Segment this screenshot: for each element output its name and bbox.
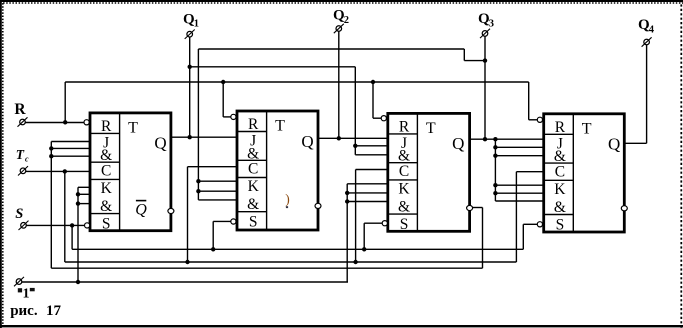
svg-text:S: S: [400, 216, 409, 233]
wire U4 J3 line: [495, 155, 543, 157]
wire U2 K3 line: [198, 199, 237, 201]
junction U2 K1: [196, 179, 200, 183]
wire rail-A drop x198: [197, 49, 199, 200]
svg-text:17: 17: [46, 303, 62, 319]
U4 inverted output bubble: [621, 206, 627, 211]
junction U4 JK riser top: [493, 137, 497, 141]
wire rail-R horizontal y82 (common R line): [65, 81, 529, 83]
junction U1 J3: [49, 154, 53, 158]
wire U2.Q to U3.J: [318, 137, 388, 139]
wire U4 R drop: [528, 82, 530, 120]
terminal R: [18, 117, 28, 126]
svg-text:S: S: [102, 215, 111, 232]
svg-text:Q: Q: [154, 134, 166, 153]
junction U1 K2: [76, 192, 80, 196]
svg-text:C: C: [399, 163, 409, 180]
wire U3 R drop: [372, 82, 374, 118]
junction Q3 rail-A: [483, 58, 487, 62]
wire U2 S riser: [212, 221, 214, 249]
flip-flop U3 (T-trigger box): [388, 113, 470, 232]
svg-text:): ): [285, 192, 290, 207]
svg-text:R: R: [101, 118, 112, 135]
svg-text:&: &: [398, 198, 410, 215]
wire U3 /Q to riser: [473, 207, 483, 209]
junction C-bus x187: [185, 260, 189, 264]
flip-flop U1 (T-trigger box): [90, 113, 171, 232]
junction S-bus x213: [211, 247, 215, 251]
svg-text:R: R: [14, 101, 26, 118]
wire U1 K2 line: [78, 193, 90, 195]
wire U1 J3 line: [51, 155, 90, 157]
wire U4 S riser: [522, 224, 524, 249]
wire U2 C riser: [187, 167, 189, 262]
wire S-bus y249: [72, 248, 523, 250]
junction U2 K2: [196, 189, 200, 193]
svg-text:K: K: [248, 178, 260, 195]
svg-text:R: R: [248, 116, 259, 133]
svg-text:1: 1: [194, 19, 199, 30]
wire U1 C drop to C-bus: [64, 171, 66, 262]
wire U3 C riser: [355, 170, 357, 263]
wire U3 /Q drop: [482, 208, 484, 269]
U4 S input bubble: [537, 222, 542, 227]
junction U4 K1: [493, 183, 497, 187]
wire U3 J3 line: [355, 154, 388, 156]
U1 inverted output bubble: [168, 208, 174, 213]
wire J-bus y268: [51, 267, 482, 269]
wire rail-R riser at x65: [64, 82, 66, 123]
junction Q3 on output: [483, 137, 487, 141]
flip-flop U2 (T-trigger box): [237, 111, 318, 231]
junction U4 J3: [493, 154, 497, 158]
junction Q1 on output: [188, 135, 192, 139]
U2 inverted output bubble: [315, 203, 321, 208]
flip-flop U4 (T-trigger box): [544, 114, 625, 234]
junction Q1 rail-B: [188, 65, 192, 69]
wire U3.Q to U4.J: [470, 138, 544, 140]
svg-text:Q: Q: [452, 134, 464, 153]
svg-text:&: &: [247, 196, 259, 213]
junction S wire x72: [70, 223, 74, 227]
wire U1 K3 line: [78, 203, 90, 205]
wire U3 K2 line: [347, 192, 388, 194]
svg-text:4: 4: [649, 24, 655, 35]
terminal Q2 drop wire: [338, 31, 340, 138]
svg-text:T: T: [128, 119, 138, 136]
svg-text:Q: Q: [608, 135, 620, 154]
wire U3 S riser: [363, 223, 365, 249]
terminal Q3: [480, 29, 490, 38]
junction U1 K3: [76, 201, 80, 205]
U2 R input bubble: [231, 114, 236, 119]
wire rail-A y49 (Q3 to U2.K): [198, 48, 464, 50]
junction U3 K3: [345, 199, 349, 203]
svg-text:C: C: [248, 161, 258, 178]
junction U1 J2: [49, 146, 53, 150]
svg-text:S: S: [15, 206, 23, 222]
svg-text:T: T: [275, 118, 285, 135]
svg-text:C: C: [101, 162, 111, 179]
wire U4 C riser: [515, 172, 517, 262]
wire U4 K1 line: [495, 184, 543, 186]
terminal Tc: [18, 166, 28, 175]
wire U4 JK vertical: [494, 139, 496, 201]
junction U4 K2: [493, 191, 497, 195]
terminal Q3 drop wire: [484, 36, 486, 139]
terminal Q1 drop wire: [189, 37, 191, 137]
svg-text:R: R: [399, 118, 410, 135]
junction Q2 on output: [337, 136, 341, 140]
wire U2 R drop: [222, 82, 224, 117]
svg-text:Q: Q: [301, 132, 313, 151]
svg-text:R: R: [555, 119, 566, 136]
wire U4 K2 line: [495, 192, 543, 194]
wire U1 K1 line: [78, 186, 90, 188]
input "1" label: [18, 288, 22, 292]
svg-text:c: c: [25, 154, 29, 163]
wire U1 J vertical: [50, 142, 52, 269]
wire R terminal to U1.R: [25, 122, 84, 124]
wire U4.Q to terminal Q4: [624, 142, 646, 144]
junction U4 J2: [493, 145, 497, 149]
junction C-bus x355: [353, 260, 357, 264]
svg-text:T: T: [582, 120, 592, 137]
svg-text:K: K: [554, 181, 566, 198]
U4 R input bubble: [537, 117, 542, 122]
wire U3 K1 line: [347, 183, 388, 185]
wire U1 S drop to S-bus: [71, 225, 73, 249]
wire "1" line y282: [22, 281, 348, 283]
junction "1" x78: [76, 280, 80, 284]
svg-text:K: K: [398, 180, 410, 197]
wire U1 J2 line: [51, 147, 90, 149]
svg-text:C: C: [555, 163, 565, 180]
svg-text:рис.: рис.: [10, 303, 38, 319]
U1 R input bubble: [84, 120, 89, 125]
junction C wire x65: [63, 169, 67, 173]
terminal "1": [14, 277, 24, 286]
wire U3 K vertical: [346, 184, 348, 282]
wire S terminal to U1.S: [26, 224, 84, 226]
svg-text:K: K: [101, 180, 113, 197]
U3 R input bubble: [381, 116, 386, 121]
wire C-bus y262: [65, 261, 517, 263]
U3 S input bubble: [382, 221, 387, 226]
wire rail-B drop x355: [354, 67, 356, 155]
wire U2 K2 line: [198, 190, 237, 192]
terminal S: [19, 221, 29, 230]
wire rail-B y66.8 (Q1 to U3.J): [190, 66, 356, 68]
wire U1 J1 line: [51, 141, 90, 143]
U3 inverted output bubble: [467, 205, 473, 210]
junction U3 J2: [353, 144, 357, 148]
svg-text:3: 3: [489, 19, 494, 30]
terminal Q2: [334, 24, 344, 33]
wire U4 K3 line: [495, 200, 543, 202]
wire U1.Q to U2.J: [171, 136, 237, 138]
junction S-bus x364: [362, 247, 366, 251]
wire Tc terminal to U1.C: [26, 170, 90, 172]
U1 S input bubble: [85, 223, 90, 228]
terminal Q4: [642, 37, 652, 46]
svg-text:&: &: [100, 198, 112, 215]
junction R wire x65: [63, 120, 67, 124]
wire U2 K1 line: [198, 180, 237, 182]
terminal Q1: [185, 30, 195, 39]
junction U3 K2: [345, 191, 349, 195]
wire U3 J2 line: [355, 145, 388, 147]
svg-text:&: &: [554, 199, 566, 216]
junction rail-R x223: [221, 80, 225, 84]
U2 S input bubble: [231, 219, 236, 224]
svg-text:1: 1: [23, 287, 30, 302]
wire U1 K vertical: [77, 187, 79, 282]
svg-text:S: S: [249, 214, 258, 231]
wire U4 J2 line: [495, 146, 543, 148]
svg-text:2: 2: [344, 15, 349, 26]
junction rail-R x373: [371, 80, 375, 84]
wire U3 K3 line: [347, 201, 388, 203]
svg-text:T: T: [16, 147, 25, 162]
wire rail-A step: [464, 60, 485, 62]
svg-text:S: S: [556, 216, 565, 233]
svg-text:Q: Q: [135, 201, 147, 218]
svg-text:T: T: [426, 120, 436, 137]
